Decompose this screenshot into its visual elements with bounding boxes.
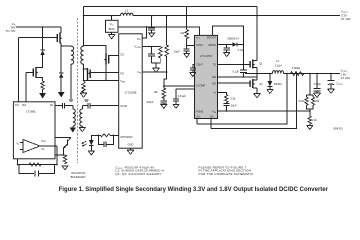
svg-text:10µF: 10µF — [174, 49, 180, 53]
resistor feedback — [29, 163, 41, 166]
diode D1 (clamp) — [40, 27, 44, 66]
svg-text:SW: SW — [212, 75, 217, 79]
transistor M1 (primary high-side MOSFET) — [57, 27, 62, 46]
transistor Q2 (buck bottom FET) — [218, 79, 264, 94]
capacitor SYNC filter (with ground) — [184, 46, 190, 58]
svg-text:470µF: 470µF — [314, 82, 322, 86]
svg-text:20k: 20k — [315, 99, 320, 103]
node junction divider riser — [166, 15, 168, 17]
node junction T1 secondary top — [83, 15, 85, 17]
svg-text:AT 10A: AT 10A — [341, 17, 350, 21]
ground (open, LTC1698 GND pin) — [127, 148, 134, 154]
op-amp error amplifier (inside LT1681) — [17, 139, 46, 153]
capacitor feedback (loop below) — [19, 165, 55, 177]
svg-text:CMDSH-3: CMDSH-3 — [227, 37, 239, 41]
capacitor ILCOMP — [164, 86, 195, 89]
ground (filled, T2 left) — [70, 128, 76, 133]
optocoupler light arrows — [82, 141, 87, 146]
wire VCOMP net bottom — [152, 63, 161, 68]
svg-text:CS+: CS+ — [210, 114, 215, 118]
wire VDD tie to VCC — [142, 27, 146, 38]
wire M1 gate — [19, 38, 58, 102]
capacitor 4.7uF GBIAS (with ground) — [224, 44, 245, 57]
svg-text:10k: 10k — [153, 90, 158, 94]
svg-text:100pF: 100pF — [146, 100, 154, 104]
svg-text:AT 10A: AT 10A — [341, 76, 350, 80]
wire VCOMP network — [142, 46, 160, 48]
ground (open, under bias box) — [108, 32, 115, 39]
wire VCC distribution — [118, 27, 199, 37]
wire opto emitter rail — [55, 154, 65, 156]
transistor optocoupler output — [55, 138, 71, 155]
svg-text:0.1µF: 0.1µF — [232, 69, 239, 73]
node isolation boundary label — [71, 171, 86, 179]
wire error amp output — [40, 145, 55, 147]
resistor VCOMP — [159, 47, 163, 64]
svg-text:OPTODRV: OPTODRV — [120, 135, 133, 139]
ground (filled, under sense R) — [39, 92, 46, 99]
optocoupler LED — [89, 135, 94, 151]
svg-text:TO 72V: TO 72V — [6, 29, 16, 33]
block LT1681 — [13, 102, 55, 159]
inductor L1 — [121, 9, 133, 16]
svg-text:LT1681: LT1681 — [26, 110, 36, 114]
wire SYNC coupling — [90, 105, 119, 107]
capacitor 100pF VFB — [146, 89, 186, 108]
ground (open, T2 right) — [79, 128, 85, 132]
wire kelvin sense CS+ — [211, 74, 297, 129]
ground (open, divider bottom) — [161, 101, 167, 108]
node reference note — [199, 166, 255, 176]
svg-text:CS−: CS− — [196, 114, 201, 118]
wire VIN rail — [16, 26, 61, 28]
transformer T2 left winding — [73, 109, 76, 128]
resistor divider top — [165, 45, 169, 59]
node component note — [115, 166, 164, 176]
resistor 10k SYNC pull-up — [180, 6, 188, 46]
svg-text:B340A: B340A — [274, 82, 282, 86]
capacitor OPTODRV (parallel loop) — [98, 135, 113, 147]
wire rail to bias box — [110, 16, 112, 21]
resistor divider bottom 10k — [153, 72, 166, 101]
block VCC bias regulator — [106, 20, 119, 32]
node T1 secondary return marks — [84, 100, 88, 102]
svg-text:BOUNDARY: BOUNDARY — [71, 175, 86, 179]
svg-text:SYNC: SYNC — [120, 104, 127, 108]
wire SW / VOUT2 rail — [218, 74, 341, 77]
ground (open, Q2 source) — [254, 94, 261, 98]
svg-text:BOOST: BOOST — [207, 36, 216, 40]
transformer T2 right winding — [80, 109, 83, 128]
svg-text:ISOLATION: ISOLATION — [71, 171, 85, 175]
resistor divider VOUT2 bottom — [308, 111, 317, 126]
capacitor COUT2 (polarized) — [328, 73, 343, 94]
transistor Q1 (buck top FET) — [250, 7, 263, 80]
inductor L2 — [272, 59, 283, 74]
capacitor rail bypass (with ground) — [148, 15, 155, 37]
capacitor VCOMP — [148, 47, 155, 64]
svg-text:1698 F01: 1698 F01 — [333, 129, 343, 131]
svg-text:TG: TG — [212, 63, 216, 67]
block LTC1698 — [119, 34, 143, 148]
svg-text:BG: BG — [23, 103, 27, 107]
transistor M2 (primary low-side MOSFET) — [26, 66, 42, 102]
ground (open, B340A) — [267, 90, 273, 94]
node VOUT1 label — [341, 10, 350, 22]
svg-text:SG: SG — [50, 103, 54, 107]
wire isolation boundary (dashed) — [76, 18, 78, 163]
svg-text:0.004Ω: 0.004Ω — [292, 66, 300, 70]
svg-text:CG: CG — [120, 53, 124, 57]
wire OPTODRV — [110, 134, 119, 136]
ground (open, divider) — [307, 126, 313, 130]
svg-text:GBIAS: GBIAS — [208, 43, 216, 47]
diode D2 (clamp to T1 top) — [59, 46, 63, 90]
svg-text:0.01µF: 0.01µF — [178, 94, 186, 98]
svg-text:PG: PG — [15, 103, 19, 107]
svg-text:BG: BG — [212, 81, 216, 85]
svg-text:Q2: Q2 — [259, 82, 263, 86]
wire BOOST loop — [212, 26, 243, 45]
ground (open, secondary return) — [80, 92, 87, 98]
svg-text:Q1, Q2: SILICONIX Si4420DY: Q1, Q2: SILICONIX Si4420DY — [115, 172, 161, 176]
wire L1 output rail — [84, 15, 341, 17]
svg-text:LTC1703: LTC1703 — [200, 54, 212, 58]
wire rail corner to VOUT1 branch — [256, 15, 258, 17]
svg-text:1.2µH: 1.2µH — [275, 64, 282, 68]
svg-text:FG: FG — [120, 72, 124, 76]
node VIN label — [6, 22, 17, 33]
wire VC node (right of block) — [55, 146, 57, 165]
wire VFB to divider — [142, 71, 167, 73]
diode CMDSH-3 — [218, 37, 244, 47]
transistor Q2 (forward FET, FG) — [84, 68, 119, 80]
svg-text:3.01k: 3.01k — [298, 99, 305, 103]
capacitor 470uF output — [314, 73, 322, 98]
transformer T1 secondary winding — [81, 7, 84, 81]
block secondary buck controller (gray) — [195, 35, 218, 118]
svg-text:2.2k: 2.2k — [312, 118, 318, 122]
svg-text:Q1: Q1 — [259, 61, 263, 65]
node junction VDD tie — [146, 26, 148, 28]
resistor sense 0.004ohm — [291, 66, 304, 76]
capacitor bootstrap 0.1uF — [232, 45, 246, 77]
svg-text:10nF: 10nF — [231, 104, 237, 108]
resistor VC to ground — [62, 155, 68, 170]
svg-text:BIAS: BIAS — [109, 27, 115, 31]
capacitor CSS (soft-start) — [190, 65, 196, 77]
resistor OPTODRV — [100, 134, 110, 137]
wire VSNS node — [84, 79, 119, 81]
ground (open, VCOMP) — [153, 68, 160, 72]
svg-text:SYNC: SYNC — [196, 43, 203, 47]
svg-text:CSHT: CSHT — [196, 63, 203, 67]
wire TG — [218, 64, 251, 66]
svg-text:FOR THE COMPLETE SCHEMATIC: FOR THE COMPLETE SCHEMATIC — [199, 172, 255, 176]
svg-text:L1: L1 — [125, 9, 129, 13]
resistor divider VOUT2 top pair — [298, 73, 320, 112]
resistor secondary return — [82, 82, 86, 93]
wire divider riser — [166, 16, 168, 45]
wire kelvin sense CS- — [197, 74, 287, 125]
transformer T1 primary winding — [61, 46, 73, 99]
node VOUT2 label — [341, 68, 350, 80]
transistor Q1 (catch FET, CG) — [104, 54, 119, 81]
svg-text:ILCOMP: ILCOMP — [196, 83, 206, 87]
svg-text:GND: GND — [128, 143, 134, 147]
node T1 primary return marks — [69, 100, 73, 102]
svg-text:LTC1698: LTC1698 — [125, 90, 137, 94]
resistor sense (M2 source) — [41, 81, 45, 92]
wire Q1 drain feed — [84, 46, 107, 54]
ground (filled, under D2) — [58, 92, 65, 98]
svg-text:3.3k: 3.3k — [230, 97, 236, 101]
svg-text:PGND: PGND — [196, 109, 204, 113]
wire 3.3V top rail — [84, 6, 258, 8]
wire VFB sense line — [218, 110, 310, 112]
svg-text:Figure 1. Simplified Single Se: Figure 1. Simplified Single Secondary Wi… — [59, 187, 329, 193]
wire M1 source to T1 — [60, 45, 62, 47]
wire LT1681 SG to T2 — [55, 105, 62, 107]
ground (open, opto LED) — [88, 151, 94, 155]
capacitor T2 coupling right — [82, 103, 90, 109]
capacitor T2 coupling left — [63, 103, 73, 109]
node junction VIN/D1 — [42, 26, 44, 28]
svg-text:10k: 10k — [180, 31, 185, 35]
diode B340A — [268, 73, 283, 90]
wire feedback RC node — [18, 159, 57, 165]
resistor/capacitor VFB compensation chain — [218, 92, 238, 111]
wire SYNC to gray block — [187, 45, 195, 47]
